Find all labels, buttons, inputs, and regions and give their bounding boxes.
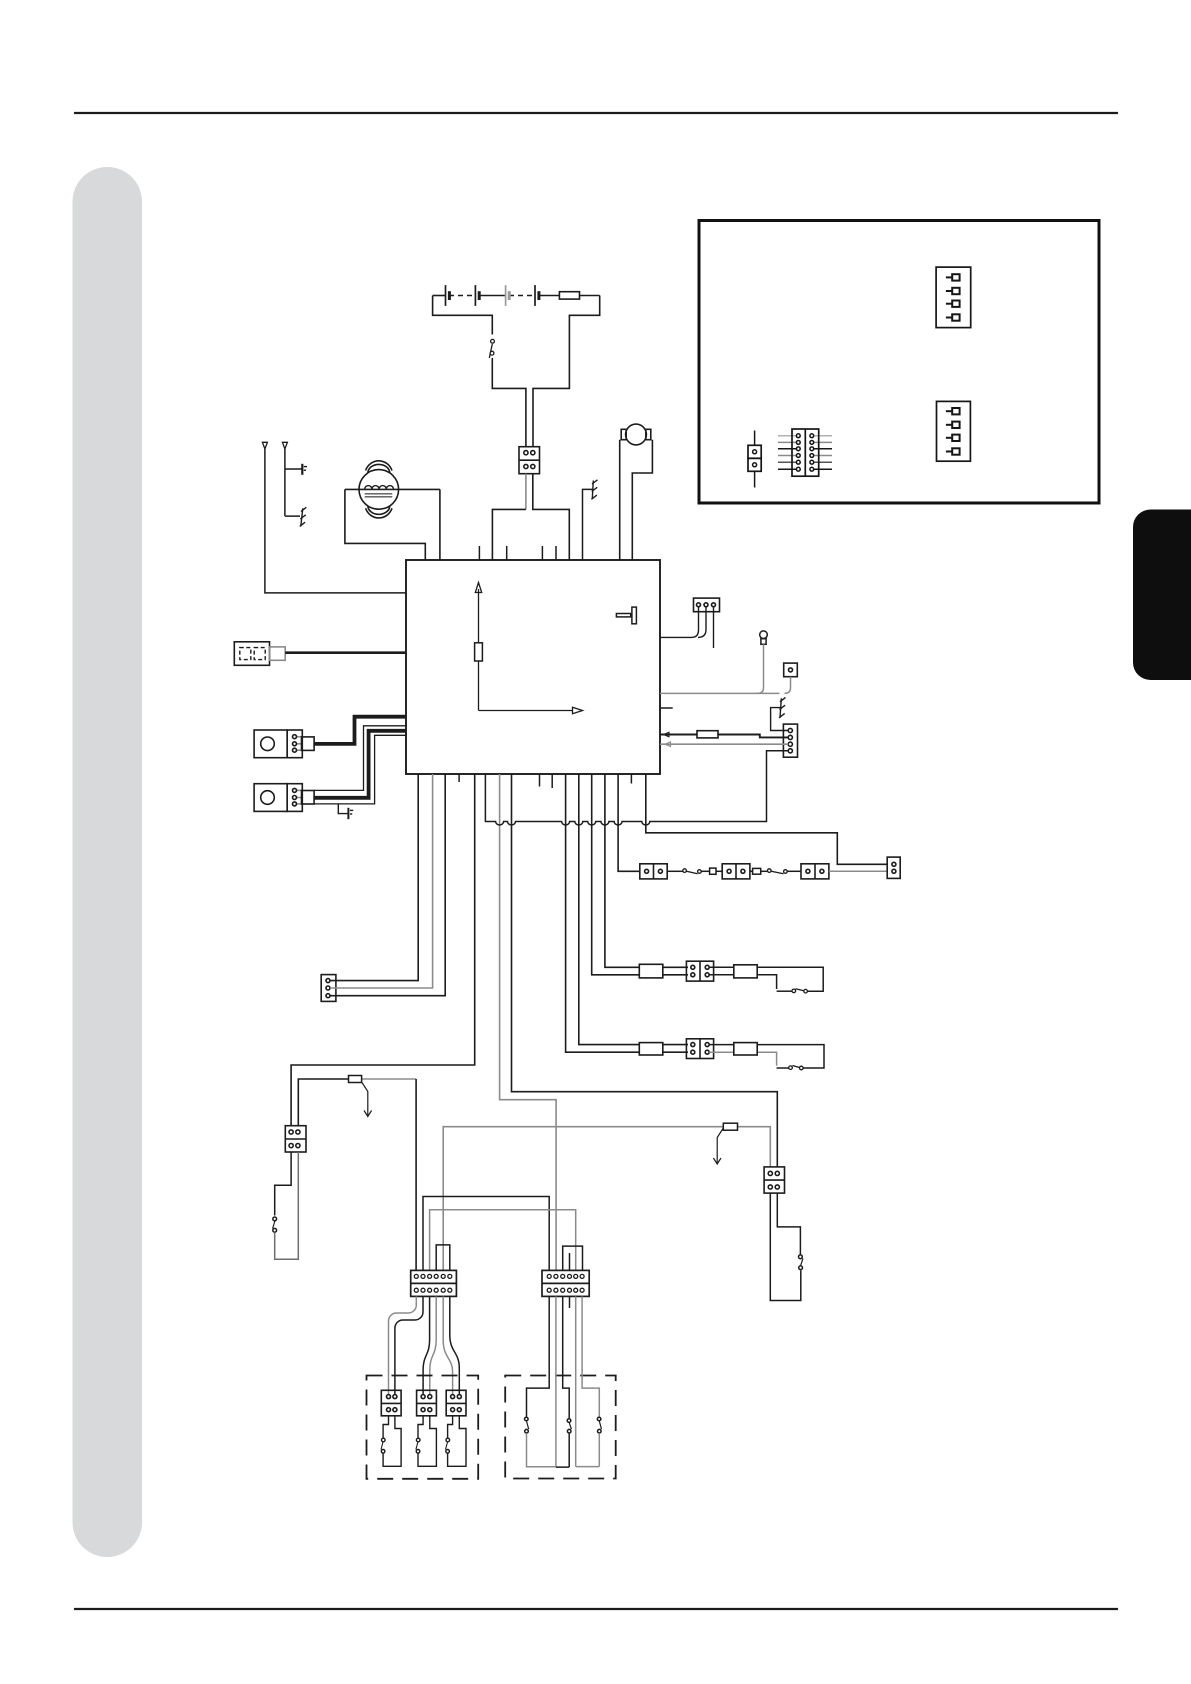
- connector CN-C (2-pin inline, inset): [748, 431, 761, 488]
- bullet connector (right side): [760, 631, 768, 644]
- wire row 1 bottom right: [709, 975, 776, 989]
- wire ECU to CN4 pin3: [330, 774, 445, 996]
- wire CN9 pin5 down (gray): [575, 1296, 577, 1466]
- wire ECU to bullet and single pin (gray): [660, 644, 791, 693]
- switch S10 loop (below CN16): [416, 1416, 437, 1467]
- connector CN17 (2x2 in dashed box): [446, 1390, 466, 1416]
- inset detail box: [699, 221, 1099, 504]
- connector CN16 (2x2 in dashed box): [417, 1390, 437, 1416]
- ECU right edge stub: [660, 707, 673, 709]
- fuse F6 (chain): [750, 868, 767, 874]
- key switch symbol (inside ECU): [616, 607, 636, 624]
- connector CN12 (2-cell, chain): [801, 864, 829, 879]
- switch S7 (row 1): [777, 989, 808, 993]
- page bottom rule: [74, 1608, 1118, 1610]
- wire ECU to fuse row 2 (bottom): [566, 774, 688, 1052]
- connector CN13 (2x2, row 1): [686, 961, 713, 981]
- wire battery connector to ECU (gray branch): [525, 474, 527, 510]
- wire CN8 pin2 to CN15 (S-curve): [395, 1296, 423, 1396]
- chassis ground (ECU top): [591, 480, 597, 500]
- antenna AN2: [282, 442, 287, 449]
- wire row 1 right loop: [709, 967, 823, 991]
- switch S1 (battery negative lead): [489, 339, 494, 358]
- wire battery connector to ECU (black branch): [533, 474, 570, 560]
- fuse F5 (chain, square): [701, 868, 722, 874]
- switch S4 loop (below CN6): [770, 1193, 803, 1300]
- switch S9 loop (below CN15): [381, 1416, 401, 1467]
- connector CN11 (2-cell, chain): [722, 864, 750, 879]
- connector CN-A (4-pin block, inset top): [936, 267, 971, 328]
- wire ECU to connector CN5 (left drop): [291, 774, 475, 1126]
- wire CN8 pin5 to CN17 (gray): [443, 1296, 452, 1396]
- connector CN15 (2x2 in dashed box): [381, 1390, 401, 1416]
- right edge black tab: [1133, 510, 1191, 681]
- wire CN9 pin2 down (gray): [555, 1296, 557, 1466]
- wire CN8 pin4 to CN16 (gray): [430, 1296, 436, 1396]
- alternator G1 (magneto): [359, 461, 399, 518]
- wire ECU to fuse row 2 (top): [579, 774, 688, 1045]
- wire ECU to fuse row 1 (bottom): [592, 774, 688, 975]
- switch S13 branch (CN9 pin3): [556, 1296, 572, 1467]
- stub (CN9 pin 4): [569, 1253, 571, 1270]
- fuse F7 (row 1 left): [639, 964, 663, 978]
- fuse F1 (battery lead): [559, 292, 579, 299]
- ECU bottom stub pins: [459, 774, 631, 788]
- switch S11 loop (below CN17): [446, 1416, 467, 1467]
- wire ECU to CN4 pin1: [330, 774, 418, 981]
- antenna AN1: [262, 442, 267, 449]
- wire CN12 to CN7 (gray): [829, 870, 887, 872]
- connector CN-B (4-pin block, inset bottom): [937, 401, 971, 461]
- wire collector bus (ECU bottom, with hops): [485, 751, 788, 825]
- wire antenna AN2: [285, 449, 302, 516]
- dashed enclosure (left lamp group): [367, 1376, 479, 1479]
- switch S12 branch (CN9 pin1): [525, 1296, 556, 1466]
- stub (CN9 pin4): [569, 1296, 571, 1308]
- wire ground to ECU top: [583, 489, 593, 560]
- wire fuse F3 to 12-pin connector CN8 (gray): [362, 1078, 417, 1080]
- left sidebar pill: [73, 167, 143, 1557]
- wire ECU to connector CN6 (long right drop): [512, 774, 778, 1167]
- wire motor M1 to ECU: [620, 440, 653, 560]
- wire CN2 to ECU: [660, 607, 714, 648]
- ECU internal horizontal arrow: [479, 707, 583, 713]
- wire alternator to ECU: [345, 489, 440, 560]
- wire ECU to fuse row 1 (top): [605, 774, 688, 967]
- fuse F3: [349, 1076, 362, 1083]
- switch S2 (chassis-comb symbol, right): [779, 697, 785, 717]
- connector CN10 (2-cell, chain): [640, 864, 667, 879]
- horn H2: [254, 784, 314, 812]
- connector CN-D (12-pin block, inset): [778, 429, 832, 476]
- arrowhead on CN3 pin3 wire: [665, 742, 671, 747]
- connector CN6 (2x2, lower right): [764, 1167, 784, 1193]
- ground symbol (antenna AN2 upper): [302, 464, 307, 475]
- wire CN8 pin1 to CN15 (S-curve): [389, 1296, 417, 1396]
- diagnostic connector X1: [234, 642, 285, 666]
- wire horn H1 to ECU (thick): [314, 717, 406, 744]
- connector CN5 (2x2, left): [285, 1126, 306, 1152]
- fuse F4: [723, 1123, 737, 1130]
- fuse F10 (row 2 right): [734, 1043, 757, 1055]
- wire horn H2 to ECU (thick): [314, 731, 406, 798]
- wire ECU to relay chain: [618, 774, 640, 871]
- wire CN8 pin3 to CN9 pin5 (gray crossbar): [430, 1210, 576, 1271]
- wire gray crossbar to CN6 (with fuse F4): [443, 1127, 770, 1271]
- wire CN8 pin6 to CN17: [450, 1296, 460, 1396]
- connector CN8 (12-pin, lower left): [411, 1270, 457, 1296]
- horn H1: [254, 730, 314, 758]
- wire CN3 pin1 to switch S2: [771, 708, 789, 731]
- connector CN2 (3-pin, ECU right top): [694, 598, 720, 612]
- ground symbol (horn circuit): [338, 804, 353, 819]
- ECU top stub pins: [479, 546, 556, 560]
- switch S8 (row 2): [777, 1066, 804, 1070]
- wire fuse F3 branch to CN5: [298, 1079, 348, 1126]
- fuse F2 (right side): [697, 731, 718, 738]
- fuse F8 (row 1 right): [734, 965, 757, 978]
- switch S5 (chain): [667, 869, 701, 874]
- jumper hat (CN8 pins 4-6): [436, 1245, 450, 1271]
- dashed enclosure (right lamp group): [505, 1376, 616, 1479]
- wire ECU to end connector CN7 (upper): [646, 774, 887, 864]
- connector CN3 (4-pin, right side): [783, 724, 797, 757]
- switch S14 branch (CN9 pin6): [576, 1296, 602, 1466]
- ECU internal vertical arrow: [475, 583, 483, 711]
- connector CN9 (12-pin, lower right): [542, 1270, 589, 1296]
- wire ECU to right 12-pin CN9 (long gray drop): [500, 774, 556, 1270]
- starter motor M1: [621, 424, 651, 445]
- connector CN14 (2x2, row 2): [686, 1039, 713, 1059]
- chassis ground (antenna AN2 lower): [300, 507, 307, 526]
- jumper hat (CN9 pins 3-6): [563, 1246, 583, 1270]
- wire antenna AN1 to ECU left edge: [265, 449, 406, 593]
- single pin connector (right side): [784, 663, 798, 677]
- wire CN8 pin3 to CN16: [423, 1296, 430, 1396]
- arrow (F3 continuation): [362, 1083, 372, 1117]
- wire row 2 bottom right (gray): [709, 1052, 776, 1066]
- ECU U1 (main control unit box): [406, 560, 660, 774]
- wire CN8 pin2 to CN9 pin1 (crossbar): [423, 1197, 549, 1271]
- fuse F9 (row 2 left): [639, 1043, 663, 1055]
- switch S3 loop (below CN5): [273, 1152, 299, 1259]
- battery BT1 cells: [446, 285, 539, 306]
- wire ECU to horn H2 (thin return 2): [314, 735, 406, 804]
- wire row 2 right loop: [709, 1045, 824, 1068]
- arrow (F4 continuation): [713, 1129, 723, 1165]
- battery BT1 wiring: [433, 296, 600, 447]
- wire ECU to horn H2 (thin return 1): [314, 726, 406, 791]
- connector CN4 (3-pin, left lower): [321, 975, 336, 1002]
- connector CN7 (end box): [887, 857, 900, 878]
- wire CN3 pin2 to ECU (with fuse): [660, 735, 788, 738]
- wire ECU to CN4 pin2 (gray): [330, 774, 433, 988]
- page top rule: [74, 112, 1118, 114]
- connector CN1 (battery 2x2): [519, 447, 540, 474]
- wire diagnostic connector to ECU: [285, 651, 406, 654]
- wire CN3 pin3 to ECU (gray): [660, 743, 788, 745]
- switch S6 (chain): [768, 869, 802, 874]
- arrowhead on CN3 pin2 wire: [664, 732, 670, 737]
